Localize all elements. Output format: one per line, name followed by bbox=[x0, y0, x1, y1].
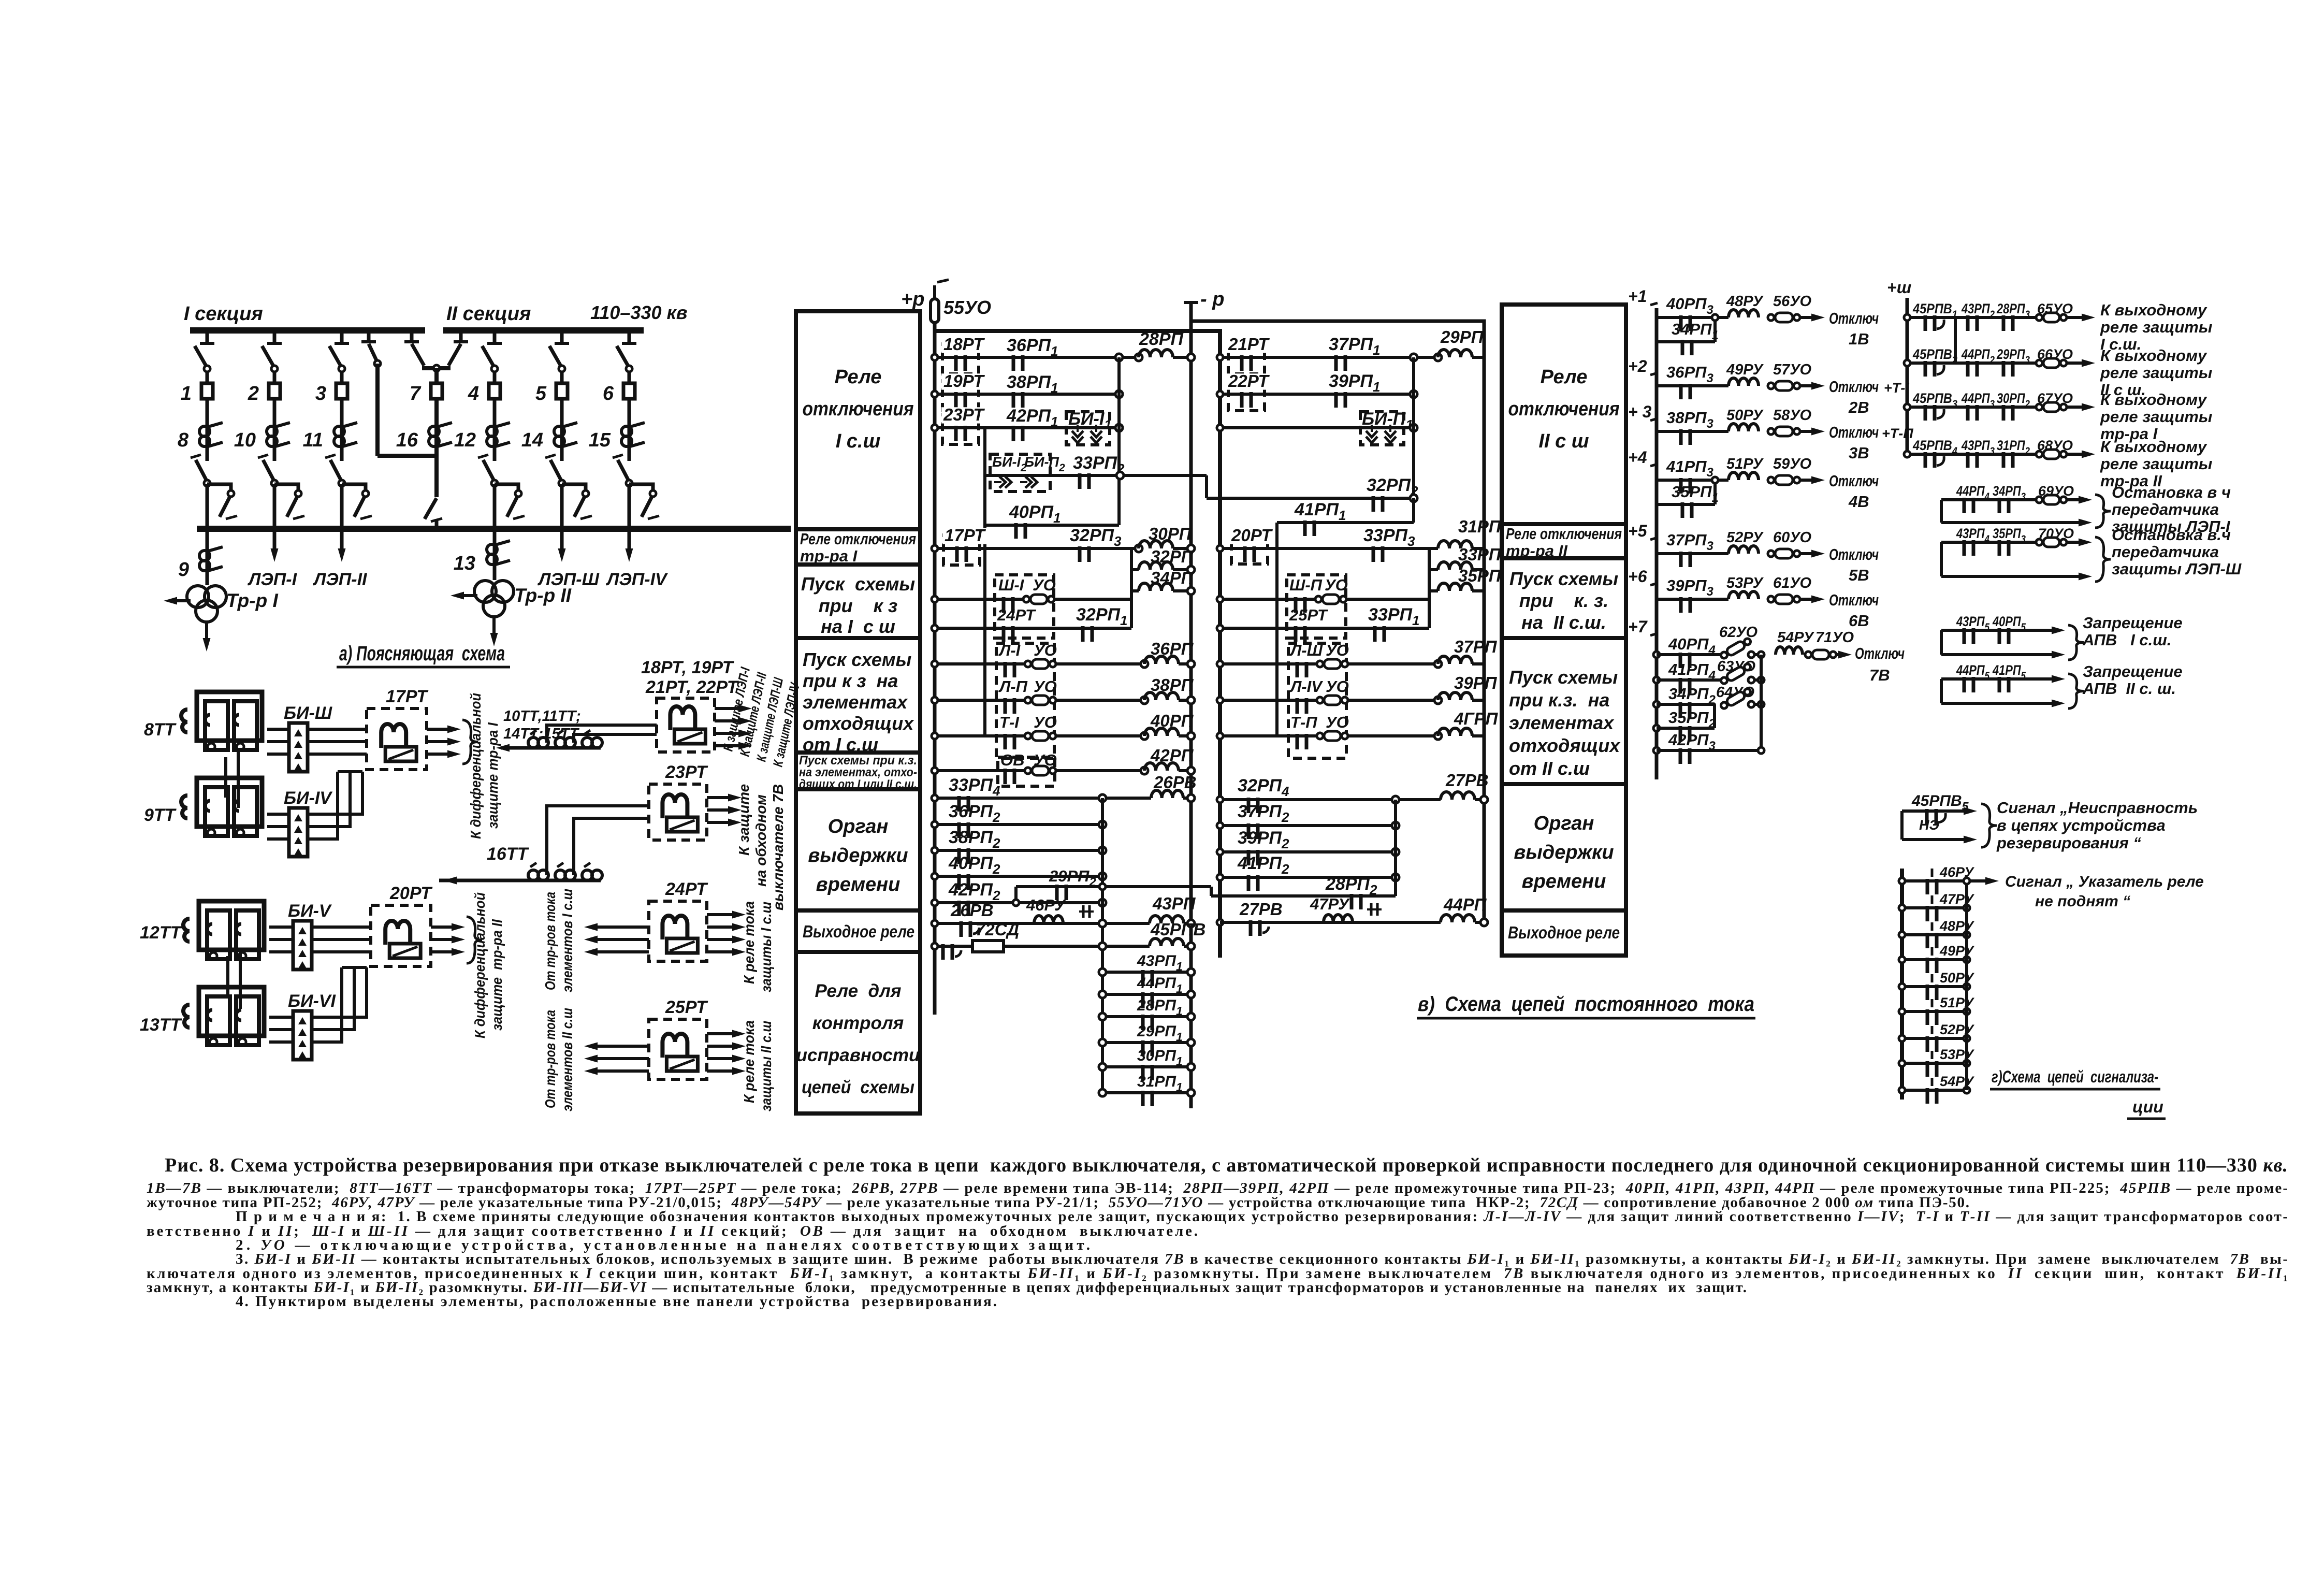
current relay 17RT bbox=[367, 708, 427, 770]
svg-text:отходящих: отходящих bbox=[803, 713, 914, 734]
lower disconnect blade bbox=[483, 460, 495, 482]
disconnect switch blade bbox=[617, 346, 629, 368]
wire feeder stub bbox=[340, 330, 344, 343]
line LEP-I arrow bbox=[273, 529, 277, 548]
wire to lower bus bbox=[340, 484, 344, 529]
test block BI-IV bbox=[289, 808, 308, 857]
svg-text:59УО: 59УО bbox=[1773, 456, 1812, 472]
svg-text:45РПВ: 45РПВ bbox=[1150, 920, 1205, 939]
svg-text:35РП: 35РП bbox=[1458, 566, 1502, 585]
parallel link 34RP2-35RP2 bbox=[1713, 704, 1716, 728]
svg-text:защиты II с.ш: защиты II с.ш bbox=[758, 1021, 774, 1111]
disconnect switch blade bbox=[482, 346, 495, 368]
svg-text:33РП: 33РП bbox=[1458, 545, 1502, 564]
time-element rows 36RP2 38RP2 40RP2 42RP2 bbox=[935, 823, 1102, 826]
trip row breaker 3В bbox=[1657, 430, 1729, 433]
svg-text:УО: УО bbox=[1034, 677, 1057, 696]
row Sh-II UO bbox=[1220, 598, 1429, 601]
wires to relays 18RT 19RT 21RT 22RT bbox=[547, 725, 642, 743]
test block BI-V bbox=[293, 921, 312, 970]
svg-text:Отключ: Отключ bbox=[1829, 472, 1879, 490]
svg-text:6В: 6В bbox=[1849, 612, 1869, 630]
svg-text:отходящих: отходящих bbox=[1509, 735, 1621, 756]
svg-text:К защите: К защите bbox=[736, 784, 752, 856]
svg-text:ОВ: ОВ bbox=[1000, 751, 1025, 769]
svg-text:Остановка в.ч: Остановка в.ч bbox=[2112, 526, 2231, 544]
right lattice vertical bbox=[1965, 881, 1968, 1090]
svg-text:13: 13 bbox=[454, 553, 475, 574]
svg-text:55УО: 55УО bbox=[943, 297, 991, 318]
svg-text:- р: - р bbox=[1200, 288, 1224, 310]
svg-text:44РП: 44РП bbox=[1443, 895, 1487, 914]
disconnect switch blade bbox=[195, 346, 207, 368]
svg-text:50РУ: 50РУ bbox=[1726, 407, 1764, 424]
svg-text:Выходное реле: Выходное реле bbox=[803, 922, 914, 941]
junction nodes on ladder2 left rail bbox=[1217, 354, 1223, 360]
svg-text:защите тр-ра II: защите тр-ра II bbox=[489, 919, 505, 1031]
svg-text:УО: УО bbox=[1034, 713, 1057, 731]
svg-text:21РТ, 22РТ: 21РТ, 22РТ bbox=[645, 677, 739, 697]
svg-text:5: 5 bbox=[535, 383, 547, 404]
svg-text:К выходному: К выходному bbox=[2100, 301, 2207, 319]
svg-text:7В: 7В bbox=[1869, 666, 1890, 684]
disconnect switch blade bbox=[549, 346, 562, 368]
signal contact 52РУ bbox=[1902, 1037, 1967, 1040]
svg-text:Пуск схемы: Пуск схемы bbox=[1509, 568, 1619, 589]
svg-text:Пуск схемы: Пуск схемы bbox=[803, 649, 912, 670]
svg-text:на I с ш: на I с ш bbox=[821, 616, 895, 637]
svg-text:а) Поясняющая схема: а) Поясняющая схема bbox=[339, 642, 505, 665]
current transformer 14 bbox=[560, 424, 564, 461]
row 23RT 42RP1 BI-I1 bbox=[935, 426, 1119, 429]
svg-text:3: 3 bbox=[315, 383, 326, 404]
svg-text:цепей схемы: цепей схемы bbox=[802, 1077, 914, 1097]
row 28RP2 bbox=[1211, 894, 1396, 898]
svg-text:К дифференциальной: К дифференциальной bbox=[472, 892, 488, 1038]
disconnect switch blade bbox=[262, 346, 274, 368]
svg-text:От тр-ров тока: От тр-ров тока bbox=[542, 892, 558, 990]
svg-text:г)Схема цепей сигнализа-: г)Схема цепей сигнализа- bbox=[1992, 1067, 2158, 1086]
svg-text:15: 15 bbox=[589, 429, 611, 451]
svg-text:4В: 4В bbox=[1848, 493, 1869, 511]
svg-text:68УО: 68УО bbox=[2037, 438, 2073, 453]
svg-text:БИ-VI: БИ-VI bbox=[288, 991, 337, 1011]
svg-text:Пуск схемы: Пуск схемы bbox=[1509, 667, 1618, 688]
svg-text:От тр-ров тока: От тр-ров тока bbox=[542, 1010, 558, 1108]
trip row breaker 5В bbox=[1657, 552, 1729, 555]
svg-text:БИ-V: БИ-V bbox=[288, 901, 332, 921]
label box: organ vyderzhki vremeni II bbox=[1502, 784, 1626, 910]
current transformer 8 bbox=[206, 424, 209, 461]
brace to differential protection tr-II bbox=[467, 917, 482, 963]
svg-text:52РУ: 52РУ bbox=[1726, 529, 1764, 546]
current relay 23RT bbox=[649, 784, 707, 840]
row 17RT 32RP3 30RP coil bbox=[935, 547, 1139, 550]
svg-text:УО: УО bbox=[1325, 576, 1348, 594]
svg-text:исправности: исправности bbox=[796, 1045, 920, 1065]
wire to lower bus bbox=[560, 484, 564, 529]
wire feeder stub bbox=[628, 330, 631, 343]
bypass branch bbox=[342, 484, 366, 495]
svg-text:9: 9 bbox=[178, 559, 189, 581]
svg-text:49РУ: 49РУ bbox=[1726, 361, 1764, 378]
link -r to ladder II right rail bbox=[1191, 321, 1484, 922]
svg-text:46РУ: 46РУ bbox=[1026, 896, 1066, 914]
svg-text:Т-П: Т-П bbox=[1290, 713, 1317, 731]
svg-text:передатчика: передатчика bbox=[2112, 543, 2219, 561]
svg-text:ЛЭП-I: ЛЭП-I bbox=[247, 570, 298, 589]
signal contact 49РУ bbox=[1902, 958, 1967, 961]
svg-text:28РП: 28РП bbox=[1139, 329, 1184, 349]
svg-text:20РТ: 20РТ bbox=[389, 884, 433, 903]
svg-text:26РВ: 26РВ bbox=[950, 901, 994, 920]
svg-text:Л-IV: Л-IV bbox=[1289, 677, 1323, 696]
svg-text:+ 3: + 3 bbox=[1628, 402, 1652, 421]
bus section II bbox=[443, 327, 644, 334]
svg-text:+2: +2 bbox=[1628, 357, 1647, 375]
label box: pusk schemy pri k.z. na II s.sh bbox=[1502, 558, 1626, 638]
svg-text:Отключ: Отключ bbox=[1829, 591, 1879, 609]
label box: pusk schemy pri k.z. I ili II s.sh bbox=[796, 753, 920, 789]
svg-text:10ТТ,11ТТ;: 10ТТ,11ТТ; bbox=[503, 708, 581, 725]
signal output arrow bbox=[1967, 879, 1985, 883]
output row to transformer I protection bbox=[1907, 406, 2039, 409]
wire to lower bus bbox=[493, 484, 497, 529]
svg-text:при к з на: при к з на bbox=[803, 670, 898, 691]
svg-text:+р: +р bbox=[901, 288, 924, 310]
svg-text:6: 6 bbox=[603, 383, 614, 404]
svg-text:I секция: I секция bbox=[184, 303, 263, 325]
transformer circuit Tr-I with CT 9 bbox=[206, 529, 209, 554]
svg-text:Т-I: Т-I bbox=[999, 713, 1020, 731]
trip row breaker 4В bbox=[1657, 479, 1729, 482]
svg-text:выдержки: выдержки bbox=[808, 845, 908, 866]
svg-text:К дифференциальной: К дифференциальной bbox=[468, 693, 484, 839]
test block BI-VI bbox=[293, 1011, 312, 1060]
coils 33RP 35RP bbox=[1428, 548, 1431, 628]
svg-text:62УО: 62УО bbox=[1719, 624, 1758, 641]
wires from BI-VI up to 20RT bbox=[312, 967, 367, 1017]
svg-text:ЛЭП-IV: ЛЭП-IV bbox=[605, 570, 669, 589]
current transformer 16 bbox=[434, 424, 439, 456]
svg-text:11: 11 bbox=[303, 429, 323, 451]
svg-text:Выходное реле: Выходное реле bbox=[1508, 923, 1620, 942]
signal contact 47РУ bbox=[1902, 906, 1967, 909]
bypass link from bus I bbox=[367, 330, 371, 342]
wire to lower bus bbox=[206, 484, 209, 529]
svg-text:Ш-П: Ш-П bbox=[1289, 576, 1323, 594]
svg-text:43РП: 43РП bbox=[1152, 894, 1196, 913]
svg-text:К выходному: К выходному bbox=[2100, 346, 2207, 365]
trip row breaker 6В bbox=[1657, 598, 1729, 601]
label box: pusk schemy na elementah II s.sh bbox=[1502, 638, 1626, 784]
svg-text:НЭ: НЭ bbox=[1919, 817, 1939, 833]
bus section I bbox=[190, 327, 425, 334]
row Sh-I UO bbox=[935, 598, 1131, 601]
svg-text:Отключ: Отключ bbox=[1829, 545, 1879, 563]
svg-text:Орган: Орган bbox=[1534, 813, 1594, 834]
svg-text:Реле: Реле bbox=[1541, 366, 1588, 388]
section g rail bbox=[1900, 869, 1904, 1100]
svg-text:Орган: Орган bbox=[828, 816, 889, 837]
breaker 7 bbox=[434, 368, 439, 383]
svg-text:Ш-I: Ш-I bbox=[998, 576, 1025, 594]
wire to lower bus bbox=[628, 484, 631, 529]
label box: rele otkljuchenija I s.sh bbox=[796, 311, 920, 529]
row 33RP4 26RV coil bbox=[935, 797, 1151, 800]
signal contact 46РУ bbox=[1902, 879, 1967, 883]
svg-text:элементах: элементах bbox=[803, 691, 908, 713]
svg-text:23РТ: 23РТ bbox=[943, 405, 985, 424]
svg-text:3В: 3В bbox=[1849, 444, 1869, 462]
svg-text:времени: времени bbox=[1522, 871, 1606, 892]
svg-text:Тр-р I: Тр-р I bbox=[226, 590, 278, 611]
label box: rele otkljuchenija II s.sh bbox=[1502, 305, 1626, 524]
bypass branch bbox=[495, 484, 518, 495]
svg-text:+7: +7 bbox=[1628, 617, 1648, 636]
row 19RT 38RP1 bbox=[935, 393, 1119, 396]
svg-text:+5: +5 bbox=[1628, 522, 1648, 540]
svg-text:27РВ: 27РВ bbox=[1239, 900, 1283, 919]
label box: pusk schemy pri k.z. na elementah I s.sh bbox=[796, 638, 920, 753]
svg-text:защите тр-ра I: защите тр-ра I bbox=[485, 722, 501, 829]
svg-text:Отключ: Отключ bbox=[1855, 644, 1905, 662]
svg-text:УО: УО bbox=[1034, 641, 1057, 659]
bus-tie breaker 7 right blade from bus II bbox=[459, 330, 463, 342]
svg-text:110–330 кв: 110–330 кв bbox=[590, 302, 687, 323]
bypass branch bbox=[629, 484, 653, 495]
wire feeder stub bbox=[493, 330, 497, 343]
svg-text:резервирования “: резервирования “ bbox=[1996, 834, 2141, 852]
label box: rele dlja kontrolja bbox=[796, 952, 920, 1113]
svg-text:22РТ: 22РТ bbox=[1228, 371, 1270, 390]
svg-text:65УО: 65УО bbox=[2037, 301, 2073, 316]
svg-text:16: 16 bbox=[396, 429, 418, 451]
svg-text:47РУ: 47РУ bbox=[1310, 895, 1350, 913]
svg-text:+4: +4 bbox=[1628, 448, 1647, 467]
svg-text:АПВ I с.ш.: АПВ I с.ш. bbox=[2082, 631, 2171, 649]
svg-text:58УО: 58УО bbox=[1773, 407, 1812, 424]
label box: rele otkljuchenija tr-ra II bbox=[1502, 524, 1626, 558]
svg-text:Остановка в ч: Остановка в ч bbox=[2112, 483, 2231, 501]
coil 32RP bbox=[1130, 548, 1133, 628]
row 22RT 39RP1 bbox=[1220, 393, 1414, 396]
lower disconnect blade bbox=[263, 460, 274, 482]
svg-text:71УО: 71УО bbox=[1815, 629, 1854, 646]
svg-text:17РТ: 17РТ bbox=[945, 526, 986, 545]
bus-tie lower blade bbox=[434, 456, 439, 497]
svg-text:2: 2 bbox=[248, 383, 259, 404]
trip row breaker 1В bbox=[1657, 316, 1729, 319]
svg-text:4: 4 bbox=[468, 383, 479, 404]
svg-text:8: 8 bbox=[178, 429, 189, 451]
row 25RT 33RP1 bbox=[1220, 627, 1429, 630]
node column B ladder1 bbox=[1101, 798, 1104, 1093]
svg-text:на обходном: на обходном bbox=[753, 794, 769, 887]
svg-text:Запрещение: Запрещение bbox=[2083, 614, 2183, 632]
lower disconnect blade bbox=[618, 460, 629, 482]
bypass branch bbox=[562, 484, 586, 495]
coil 34RP bbox=[1131, 589, 1139, 592]
svg-text:10: 10 bbox=[234, 429, 256, 451]
label box: vyhodnoe rele II bbox=[1502, 910, 1626, 956]
wire feeder stub bbox=[206, 330, 209, 343]
svg-text:57УО: 57УО bbox=[1773, 361, 1812, 378]
lower disconnect blade bbox=[330, 460, 342, 482]
svg-text:7: 7 bbox=[410, 383, 422, 404]
svg-text:Л-П: Л-П bbox=[998, 677, 1028, 696]
svg-text:4. Пунктиром выделены элементы: 4. Пунктиром выделены элементы, располож… bbox=[236, 1293, 997, 1310]
svg-text:Л-Ш: Л-Ш bbox=[1289, 641, 1323, 659]
svg-text:26РВ: 26РВ bbox=[1153, 773, 1197, 792]
svg-text:Запрещение: Запрещение bbox=[2083, 662, 2183, 681]
svg-text:1: 1 bbox=[181, 383, 192, 404]
svg-text:29РП: 29РП bbox=[1440, 327, 1484, 346]
svg-text:+Т-I: +Т-I bbox=[1884, 380, 1909, 396]
svg-text:II с ш: II с ш bbox=[1538, 430, 1589, 452]
signal contact 53РУ bbox=[1902, 1062, 1967, 1065]
svg-text:72СД: 72СД bbox=[976, 920, 1019, 939]
label box: pusk schemy pri k.z. na I s.sh bbox=[796, 565, 920, 638]
monitoring contact stack 43RP1-31RP1 bbox=[1102, 971, 1191, 974]
svg-text:К выходному: К выходному bbox=[2100, 438, 2207, 456]
transformer circuit Tr-II with CT 13 bbox=[493, 529, 497, 546]
svg-text:К реле тока: К реле тока bbox=[741, 1020, 757, 1103]
svg-text:60УО: 60УО bbox=[1773, 529, 1812, 546]
svg-text:отключения: отключения bbox=[1508, 398, 1620, 420]
svg-text:защиты ЛЭП-Ш: защиты ЛЭП-Ш bbox=[2112, 560, 2242, 578]
row 18RT 36RP1 28RP coil bbox=[935, 356, 1139, 359]
svg-text:Сигнал „ Указатель реле: Сигнал „ Указатель реле bbox=[2005, 873, 2204, 890]
node column ladder2 lower bbox=[1394, 800, 1397, 896]
row 72SD resistor 45RPV coil bbox=[935, 945, 1150, 948]
svg-text:+6: +6 bbox=[1628, 567, 1647, 586]
svg-text:25РТ: 25РТ bbox=[1289, 606, 1329, 624]
rows 37RP2 39RP2 41RP2 bbox=[1220, 824, 1396, 827]
row OV UO coil 42RP bbox=[998, 757, 1055, 786]
svg-text:Реле: Реле bbox=[835, 366, 882, 388]
svg-text:53РУ: 53РУ bbox=[1726, 575, 1764, 591]
current transformer 12 bbox=[493, 424, 497, 461]
wire feeder stub bbox=[273, 330, 277, 343]
svg-text:9ТТ: 9ТТ bbox=[144, 805, 177, 825]
signal contact 54РУ bbox=[1902, 1089, 1967, 1092]
svg-text:39РП: 39РП bbox=[1454, 673, 1498, 692]
svg-text:25РТ: 25РТ bbox=[665, 997, 708, 1017]
svg-text:32РП: 32РП bbox=[1151, 547, 1194, 566]
output row to transformer II protection bbox=[1907, 453, 2039, 456]
svg-text:в цепях устройства: в цепях устройства bbox=[1997, 816, 2166, 834]
svg-text:Сигнал „Неисправность: Сигнал „Неисправность bbox=[1997, 799, 2198, 817]
svg-text:8ТТ: 8ТТ bbox=[144, 720, 177, 740]
svg-text:36РП: 36РП bbox=[1151, 639, 1194, 658]
bypass bus (lower) bbox=[197, 526, 791, 532]
arrows to line protections bbox=[715, 707, 738, 710]
label box: organ vyderzhki vremeni bbox=[796, 789, 920, 910]
svg-text:реле защиты: реле защиты bbox=[2100, 408, 2212, 426]
svg-text:отключения: отключения bbox=[803, 398, 914, 420]
svg-text:Л-I: Л-I bbox=[998, 641, 1021, 659]
svg-text:при к з: при к з bbox=[819, 595, 898, 616]
svg-text:19РТ: 19РТ bbox=[943, 371, 985, 390]
svg-text:69УО: 69УО bbox=[2038, 483, 2074, 499]
svg-text:Реле отключения: Реле отключения bbox=[800, 530, 916, 548]
row 54RU 71UO to breaker 7V bbox=[1776, 647, 1803, 655]
svg-text:от II с.ш: от II с.ш bbox=[1509, 758, 1590, 779]
svg-text:защиты I с.ш: защиты I с.ш bbox=[758, 902, 774, 992]
rows L-III L-IV T-II with coils 37RP 39RP 41RP bbox=[1288, 643, 1346, 758]
svg-text:+1: +1 bbox=[1628, 287, 1647, 306]
svg-text:Отключ: Отключ bbox=[1829, 378, 1879, 396]
vertical link 23RT row down to T-I row bbox=[983, 428, 986, 736]
svg-text:элементах: элементах bbox=[1509, 712, 1615, 733]
svg-text:14: 14 bbox=[521, 429, 543, 451]
junction nodes on +r rail bbox=[932, 354, 938, 360]
svg-text:элементов I с.ш: элементов I с.ш bbox=[559, 889, 575, 992]
svg-text:ЛЭП-II: ЛЭП-II bbox=[312, 570, 368, 589]
current transformer 15 bbox=[628, 424, 631, 461]
row BI-II1 bbox=[1220, 426, 1414, 429]
svg-text:12: 12 bbox=[454, 429, 476, 451]
svg-text:2В: 2В bbox=[1848, 398, 1869, 416]
svg-text:при к. з.: при к. з. bbox=[1519, 590, 1609, 611]
row 27RV contact 47RU coil 44RP coil bbox=[1220, 921, 1441, 924]
svg-text:70УО: 70УО bbox=[2038, 526, 2074, 541]
svg-text:реле защиты: реле защиты bbox=[2100, 455, 2212, 473]
svg-text:выдержки: выдержки bbox=[1514, 842, 1614, 863]
bypass branch bbox=[207, 484, 231, 495]
section v rail with taps +1..+7 bbox=[1655, 308, 1659, 779]
svg-text:61УО: 61УО bbox=[1773, 575, 1812, 591]
test block BI-III bbox=[289, 723, 308, 772]
svg-text:при к.з. на: при к.з. на bbox=[1509, 689, 1609, 711]
bus-tie junction bar bbox=[422, 366, 451, 370]
row BI-I2 BI-II2 33RP2 bbox=[985, 474, 1207, 477]
svg-text:1В: 1В bbox=[1849, 330, 1869, 348]
disconnect switch blade bbox=[329, 346, 342, 368]
svg-text:контроля: контроля bbox=[812, 1013, 904, 1033]
hf transmitter stop loop LEP-I bbox=[1941, 498, 2039, 501]
svg-text:в) Схема цепей постоянного: в) Схема цепей постоянного тока bbox=[1418, 993, 1754, 1016]
svg-text:51РУ: 51РУ bbox=[1726, 456, 1764, 472]
svg-text:5В: 5В bbox=[1849, 566, 1869, 584]
svg-text:АПВ II с. ш.: АПВ II с. ш. bbox=[2082, 679, 2176, 698]
current transformer 10 bbox=[273, 424, 277, 461]
lower disconnect blade bbox=[550, 460, 562, 482]
label box: rele otkljuchenija tr-ra I bbox=[796, 529, 920, 565]
vertical node column ladder1 top bbox=[1117, 357, 1121, 525]
svg-text:17РТ: 17РТ bbox=[386, 687, 429, 706]
svg-text:К выходному: К выходному bbox=[2100, 390, 2207, 409]
svg-text:34РП: 34РП bbox=[1151, 568, 1194, 587]
row 41RP1 bbox=[1277, 521, 1414, 524]
svg-text:ции: ции bbox=[2132, 1097, 2163, 1116]
link from 33RP2 row to ladder 2 32RP2 row bbox=[1205, 475, 1208, 498]
svg-text:18РТ, 19РТ: 18РТ, 19РТ bbox=[641, 658, 735, 677]
svg-text:14ТТ;15ТТ: 14ТТ;15ТТ bbox=[503, 726, 579, 742]
row 32RP2 bbox=[1207, 497, 1414, 500]
svg-text:56УО: 56УО bbox=[1773, 293, 1812, 310]
svg-text:+Т-П: +Т-П bbox=[1882, 426, 1913, 441]
svg-text:передатчика: передатчика bbox=[2112, 500, 2219, 518]
svg-text:23РТ: 23РТ bbox=[665, 762, 708, 782]
trip group breaker 7V bbox=[1679, 653, 1682, 668]
trip row breaker 2В bbox=[1657, 384, 1729, 387]
row 32RP4 27RV coil bbox=[1220, 798, 1441, 801]
svg-text:не поднят “: не поднят “ bbox=[2035, 893, 2130, 910]
svg-text:4ГРП: 4ГРП bbox=[1454, 709, 1499, 728]
svg-text:48РУ: 48РУ bbox=[1726, 293, 1764, 310]
